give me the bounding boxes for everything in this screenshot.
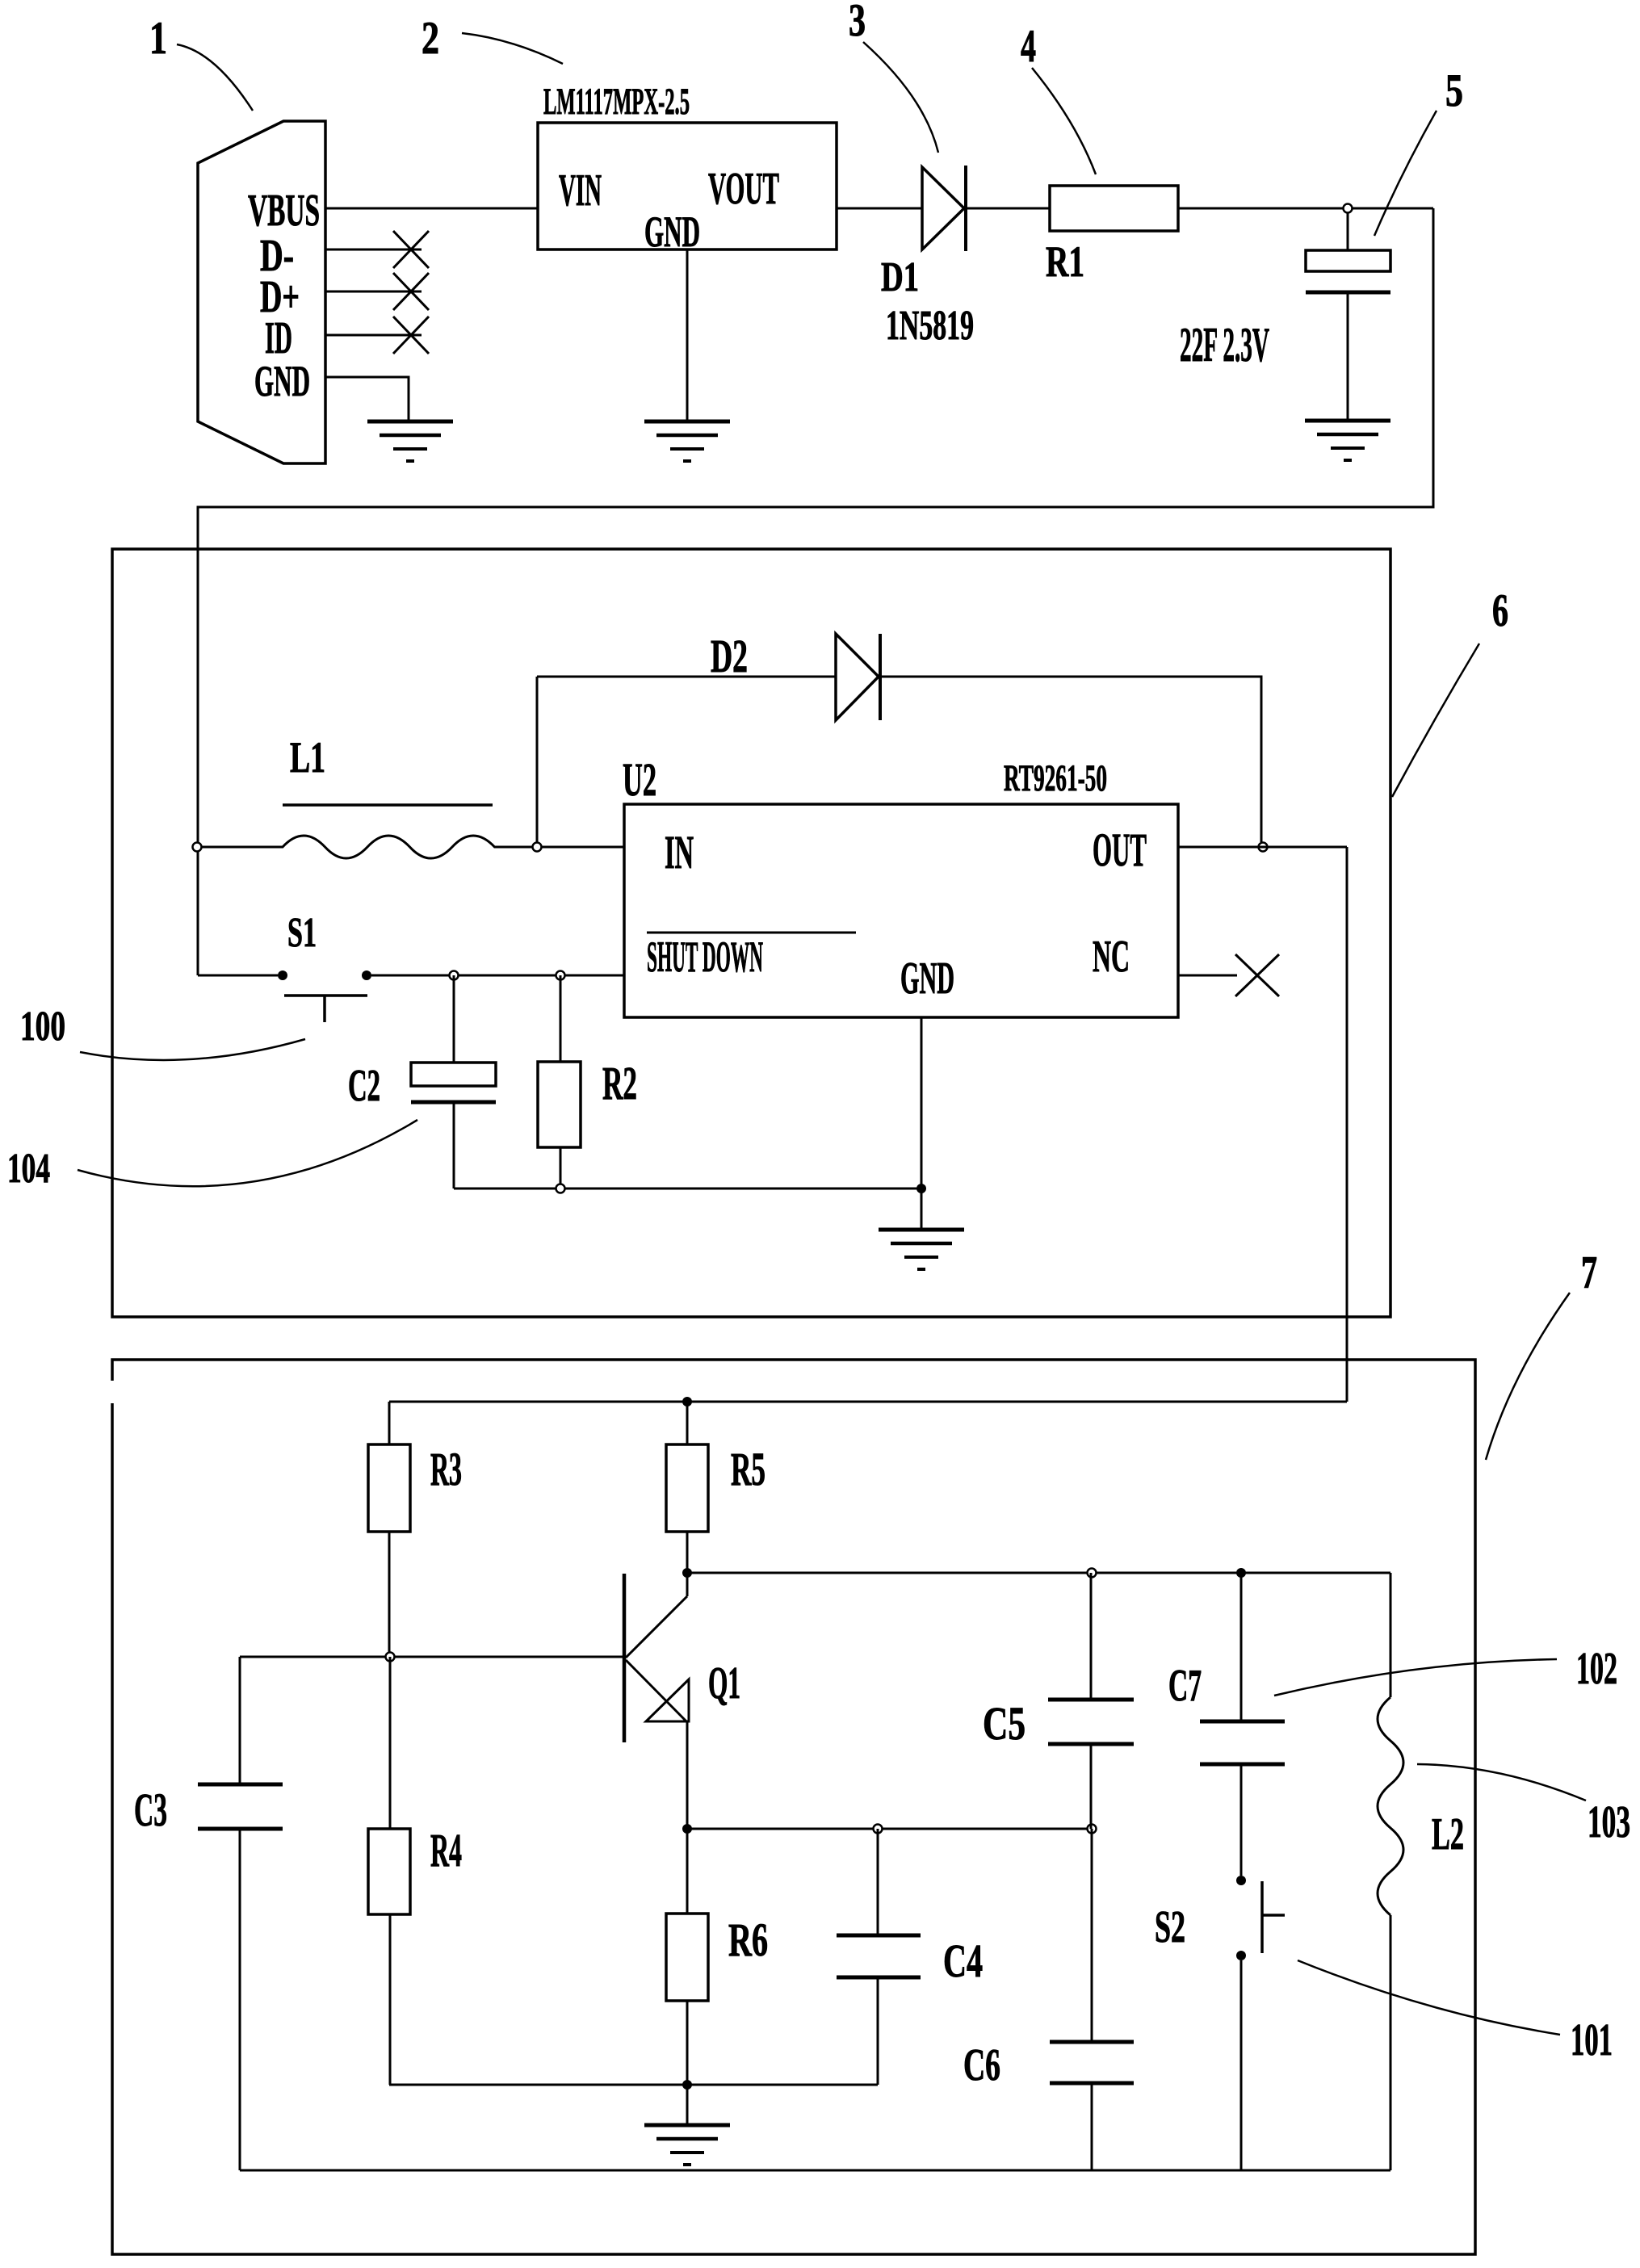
inductor L1 <box>197 836 537 858</box>
svg-text:C6: C6 <box>963 2040 1000 2090</box>
svg-text:1N5819: 1N5819 <box>886 303 974 349</box>
svg-text:OUT: OUT <box>1093 824 1147 876</box>
resistor R2 <box>538 975 581 1188</box>
resistor R5 <box>666 1402 708 1573</box>
value label 22F 2.3V <box>1180 318 1269 371</box>
wire U1 GND to ground <box>686 249 689 421</box>
wire capacitor 5 to ground <box>1347 292 1349 421</box>
wire D- <box>325 249 422 251</box>
junction R5 tap <box>682 1397 692 1406</box>
svg-text:C2: C2 <box>348 1061 380 1111</box>
junction Q1 collector node <box>682 1568 692 1578</box>
junction OUT node <box>1259 843 1268 852</box>
wire OUT down to block 7 <box>1346 847 1348 1402</box>
label R2 <box>602 1057 637 1109</box>
no-connect X on NC <box>1235 954 1279 996</box>
svg-text:Q1: Q1 <box>708 1658 740 1708</box>
USB connector 1 <box>198 121 325 463</box>
ground (capacitor 5) <box>1305 421 1390 460</box>
svg-text:D2: D2 <box>711 630 748 682</box>
junction GND node <box>916 1184 926 1193</box>
switch S2 <box>1236 1876 1285 1960</box>
label 1 <box>149 13 167 64</box>
svg-text:GND: GND <box>254 357 310 405</box>
leader for label 3 <box>863 42 938 153</box>
resistor R4 <box>368 1657 410 2085</box>
capacitor C5 <box>1048 1573 1134 1829</box>
svg-text:4: 4 <box>1021 21 1036 72</box>
ground (U1) <box>644 421 730 461</box>
pin label VIN <box>559 166 602 216</box>
wire U2 GND pin <box>921 1017 923 1188</box>
label R4 <box>430 1824 462 1876</box>
pin label D- <box>260 231 294 281</box>
L1 underline <box>283 803 493 807</box>
capacitor C2 <box>411 975 496 1188</box>
svg-text:R5: R5 <box>731 1443 765 1495</box>
leader for label 4 <box>1032 68 1096 174</box>
pin label D+ <box>260 272 300 322</box>
label 6 <box>1492 585 1508 636</box>
label U2 <box>623 753 656 806</box>
svg-text:R1: R1 <box>1046 237 1084 286</box>
capacitor C6 <box>1050 1829 1134 2170</box>
label 101 <box>1571 2015 1613 2065</box>
svg-text:VBUS: VBUS <box>248 186 320 236</box>
pin label GND (U1) <box>644 208 700 256</box>
svg-text:C5: C5 <box>983 1697 1026 1750</box>
svg-text:103: 103 <box>1588 1797 1630 1847</box>
voltage regulator U1 LM1117 box <box>538 123 837 249</box>
ground (USB) <box>367 421 453 461</box>
leader for label 2 <box>462 33 563 64</box>
svg-text:VIN: VIN <box>559 166 602 216</box>
label 3 <box>849 0 866 46</box>
svg-text:102: 102 <box>1576 1644 1617 1694</box>
leader for label 101 <box>1298 1960 1560 2035</box>
inductor L2 <box>1378 1697 1403 1915</box>
label 2 <box>422 13 439 64</box>
leader for label 104 <box>78 1120 417 1186</box>
no-connect X on D- <box>393 231 429 268</box>
wire to S1 left contact <box>198 975 278 977</box>
svg-text:NC: NC <box>1093 932 1130 982</box>
label 1N5819 <box>886 303 974 349</box>
label RT9261-50 <box>1004 757 1107 799</box>
SHUT DOWN overline <box>647 932 856 934</box>
junction C4 tap <box>874 1825 883 1834</box>
block 7 border <box>112 1360 1475 2254</box>
svg-text:C3: C3 <box>134 1784 167 1836</box>
capacitor C7 <box>1200 1573 1285 1876</box>
label 104 <box>7 1146 50 1192</box>
svg-text:C7: C7 <box>1168 1661 1202 1711</box>
junction C7 tap <box>1236 1568 1246 1578</box>
wire C2/R2 bottom to U2 GND <box>454 1188 921 1190</box>
svg-text:R3: R3 <box>430 1443 462 1495</box>
wire D1 to R1 <box>966 208 1050 210</box>
wire IN node up to D2 <box>536 677 539 842</box>
wire output feed to block 6 <box>198 208 1433 975</box>
label D2 <box>711 630 748 682</box>
label 7 <box>1581 1247 1597 1298</box>
ground (R6) <box>644 2125 730 2165</box>
junction C5 bottom node <box>1088 1825 1097 1834</box>
junction base/R3/R4 node <box>386 1653 395 1662</box>
label 103 <box>1588 1797 1630 1847</box>
wire VBUS to U1 VIN <box>325 208 538 210</box>
label R3 <box>430 1443 462 1495</box>
junction C5 tap <box>1088 1569 1097 1578</box>
label C4 <box>943 1935 983 1987</box>
svg-text:104: 104 <box>7 1146 50 1192</box>
svg-text:RT9261-50: RT9261-50 <box>1004 757 1107 799</box>
svg-text:100: 100 <box>20 1004 65 1050</box>
wire L2 to bottom rail <box>1390 1915 1392 2170</box>
svg-text:ID: ID <box>265 313 292 363</box>
leader for label 100 <box>80 1039 305 1060</box>
label D1 <box>881 254 919 300</box>
svg-text:R2: R2 <box>602 1057 637 1109</box>
capacitor 5 (22F) <box>1306 250 1390 292</box>
svg-text:SHUT DOWN: SHUT DOWN <box>647 933 763 981</box>
pin label ID <box>265 313 292 363</box>
collector rail to L2 <box>687 1572 1390 1574</box>
bottom rail <box>240 2169 1390 2172</box>
wire U1 VOUT to D1 <box>837 208 922 210</box>
svg-text:22F 2.3V: 22F 2.3V <box>1180 318 1269 371</box>
junction R2 tap <box>556 971 565 980</box>
junction L1 right / U2 IN node <box>533 843 542 852</box>
junction R2 bottom <box>556 1184 565 1193</box>
leader for label 1 <box>177 44 253 111</box>
label 100 <box>20 1004 65 1050</box>
junction L1 left <box>193 843 202 852</box>
no-connect X on D+ <box>393 273 429 310</box>
pin label GND (USB) <box>254 357 310 405</box>
svg-text:2: 2 <box>422 13 439 64</box>
label C6 <box>963 2040 1000 2090</box>
pin label VOUT <box>708 164 779 214</box>
wire S2 to bottom rail <box>1240 1960 1243 2170</box>
wire ID <box>325 334 422 337</box>
svg-text:S2: S2 <box>1155 1902 1185 1952</box>
junction R6 bottom node <box>682 2080 692 2090</box>
label S2 <box>1155 1902 1185 1952</box>
pin label GND (U2) <box>900 954 954 1004</box>
wire R4 to R6/C4 <box>389 2084 878 2086</box>
wire node to capacitor 5 <box>1347 213 1349 250</box>
pin label OUT <box>1093 824 1147 876</box>
svg-text:L1: L1 <box>290 733 325 782</box>
wire R1 to output node <box>1178 208 1433 210</box>
svg-text:S1: S1 <box>287 910 317 956</box>
svg-text:5: 5 <box>1445 65 1463 116</box>
label S1 <box>287 910 317 956</box>
label LM1117MPX-2.5 <box>543 81 690 123</box>
resistor R6 <box>666 1829 708 2085</box>
leader for label 103 <box>1417 1764 1586 1801</box>
label 102 <box>1576 1644 1617 1694</box>
label C5 <box>983 1697 1026 1750</box>
svg-text:IN: IN <box>665 826 694 878</box>
block 6 border <box>112 549 1390 1317</box>
transistor Q1 <box>624 1573 689 1829</box>
label C3 <box>134 1784 167 1836</box>
svg-text:7: 7 <box>1581 1247 1597 1298</box>
junction output node <box>1344 204 1353 213</box>
label L1 <box>290 733 325 782</box>
label 4 <box>1021 21 1036 72</box>
wire S1 to U2 SHUTDOWN <box>371 975 624 977</box>
junction Q1 emitter node <box>682 1824 692 1834</box>
leader for label 102 <box>1274 1659 1557 1696</box>
leader for label 5 <box>1374 111 1437 236</box>
svg-text:101: 101 <box>1571 2015 1613 2065</box>
wire U2 NC <box>1178 975 1237 977</box>
wire D2 anode <box>537 676 836 678</box>
no-connect X on ID <box>393 317 429 354</box>
junction C2 tap <box>450 971 459 980</box>
svg-text:1: 1 <box>149 13 167 64</box>
svg-text:R6: R6 <box>728 1914 768 1966</box>
wire D+ <box>325 291 422 293</box>
svg-text:U2: U2 <box>623 753 656 806</box>
svg-text:C4: C4 <box>943 1935 983 1987</box>
svg-text:D1: D1 <box>881 254 919 300</box>
svg-text:R4: R4 <box>430 1824 462 1876</box>
leader for label 7 <box>1486 1293 1570 1460</box>
switch S1 <box>278 971 371 1022</box>
svg-text:VOUT: VOUT <box>708 164 779 214</box>
label 5 <box>1445 65 1463 116</box>
capacitor C4 <box>837 1829 921 2085</box>
svg-text:GND: GND <box>900 954 954 1004</box>
resistor R3 <box>368 1402 410 1657</box>
wire node to U2 IN <box>542 846 624 849</box>
pin label VBUS <box>248 186 320 236</box>
wire USB GND pin <box>325 377 409 421</box>
capacitor C3 <box>198 1657 283 2170</box>
diode D2 <box>836 634 880 720</box>
wire Q1 base <box>240 1656 624 1658</box>
label Q1 <box>708 1658 740 1708</box>
wire to ground (R6) <box>686 2085 689 2125</box>
label R1 <box>1046 237 1084 286</box>
svg-text:6: 6 <box>1492 585 1508 636</box>
svg-text:LM1117MPX-2.5: LM1117MPX-2.5 <box>543 81 690 123</box>
wire U2 OUT <box>1178 846 1347 849</box>
pin label IN <box>665 826 694 878</box>
label L2 <box>1432 1809 1464 1859</box>
label R5 <box>731 1443 765 1495</box>
wire emitter rail <box>687 1828 1092 1830</box>
wire rail down to L2 <box>1390 1573 1392 1697</box>
leader for label 6 <box>1392 644 1479 797</box>
svg-text:L2: L2 <box>1432 1809 1464 1859</box>
ground (U2) <box>879 1230 964 1269</box>
resistor R1 <box>1050 186 1178 231</box>
IC U2 box <box>624 804 1178 1017</box>
label C7 <box>1168 1661 1202 1711</box>
wire supply rail from OUT <box>389 1401 1347 1403</box>
label R6 <box>728 1914 768 1966</box>
label C2 <box>348 1061 380 1111</box>
wire GND node to ground <box>921 1188 923 1230</box>
wire D2 cathode to OUT node <box>880 677 1261 842</box>
pin label NC <box>1093 932 1130 982</box>
svg-text:GND: GND <box>644 208 700 256</box>
svg-text:3: 3 <box>849 0 866 46</box>
pin label SHUT DOWN <box>647 933 763 981</box>
diode D1 <box>922 166 966 251</box>
